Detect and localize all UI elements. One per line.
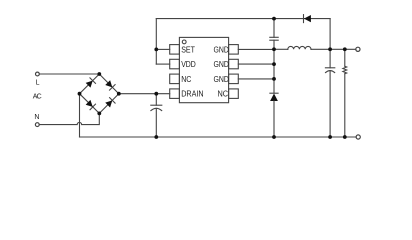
wire top horizontal [156,18,330,20]
wire GND2 to rail [238,63,274,65]
wire SET feed [156,48,169,50]
svg-text:GND: GND [214,75,229,84]
node resistor bottom junction [343,135,347,139]
terminal L [36,72,40,76]
node output cap junction [328,47,332,51]
capacitor C3 lead bottom [329,71,331,137]
terminal OUT+ [356,47,360,51]
wire VDD feed [156,63,169,65]
capacitor C2 plates [270,36,278,38]
terminal N [35,123,39,127]
rail x=274 mid segment [273,40,275,93]
resistor R1 lead bottom [344,74,346,137]
capacitor C3 output electrolytic lead top [329,49,331,68]
node GND2 junction [272,62,276,66]
node SET junction [154,48,158,52]
wire GND3 to rail [238,78,274,80]
node bridge bottom corner [97,112,101,116]
bridge diode D3 (left-bottom edge, points to bottom corner) [85,100,95,110]
svg-text:GND: GND [214,45,229,54]
svg-text:AC: AC [33,93,42,100]
pin box GND3 [229,74,239,84]
pin box NC left [170,74,180,84]
IC U1 body [179,37,228,102]
freewheel diode D6 (cathode bar up) [270,92,278,94]
resistor R1 lead top [344,49,346,66]
rail x=274 bottom segment [273,101,275,137]
node input cap bottom junction [154,135,158,139]
bridge diode D1 (left-top edge, points to top) [85,78,95,88]
node GND3 junction [272,77,276,81]
bridge diode D4 (bottom-right edge, points to right corner) [105,98,115,108]
IC pin-1 marker circle [182,40,186,44]
pin box DRAIN [170,89,180,99]
rail x=274 top segment [273,19,275,38]
node bridge top corner [97,72,101,76]
svg-text:GND: GND [214,60,229,69]
wire bridge left corner down to bottom rail [79,94,81,137]
wire L to bridge top [39,73,99,75]
node diode bottom junction [272,135,276,139]
wire N to bridge bottom with hop [39,113,99,124]
resistor R1 zigzag [343,66,347,74]
svg-text:L: L [36,80,40,87]
capacitor C1 input electrolytic lead top [155,94,157,106]
svg-text:N: N [34,114,39,121]
capacitor C3 plates [325,67,334,69]
node top T-junction [272,17,276,21]
pin box VDD [170,59,180,69]
svg-text:NC: NC [181,75,191,84]
svg-text:NC: NC [218,90,229,99]
wire top loop left vertical [155,19,157,65]
terminal OUT- [356,135,360,139]
node output cap bottom junction [328,135,332,139]
bridge diamond edges [80,74,119,113]
inductor L1 [288,46,311,49]
svg-text:DRAIN: DRAIN [181,90,203,99]
pin box SET [170,45,180,55]
wire top-right vertical [329,19,331,50]
wire GND1 to rail [238,48,274,50]
pin box NC right [229,89,239,99]
wire inductor to output node [311,48,356,50]
pin box GND1 [229,45,239,55]
node bridge right corner [117,92,121,96]
node input cap top junction [154,92,158,96]
capacitor C1 lead bottom [155,108,157,137]
bottom rail [80,136,357,138]
mid wire junction to inductor [274,48,288,50]
positive rail bridge right corner to DRAIN pin [119,93,170,95]
svg-text:SET: SET [181,45,195,54]
capacitor C1 plates [151,104,162,106]
svg-text:VDD: VDD [181,60,196,69]
node bridge left corner [78,92,82,96]
pin box GND2 [229,59,239,69]
node resistor top junction [343,47,347,51]
diode D5 on top wire (cathode bar left) [303,15,305,23]
bridge diode D2 (top-right edge, points to right corner) [105,80,115,90]
node mid rail junction [272,47,276,51]
labels [33,45,229,121]
